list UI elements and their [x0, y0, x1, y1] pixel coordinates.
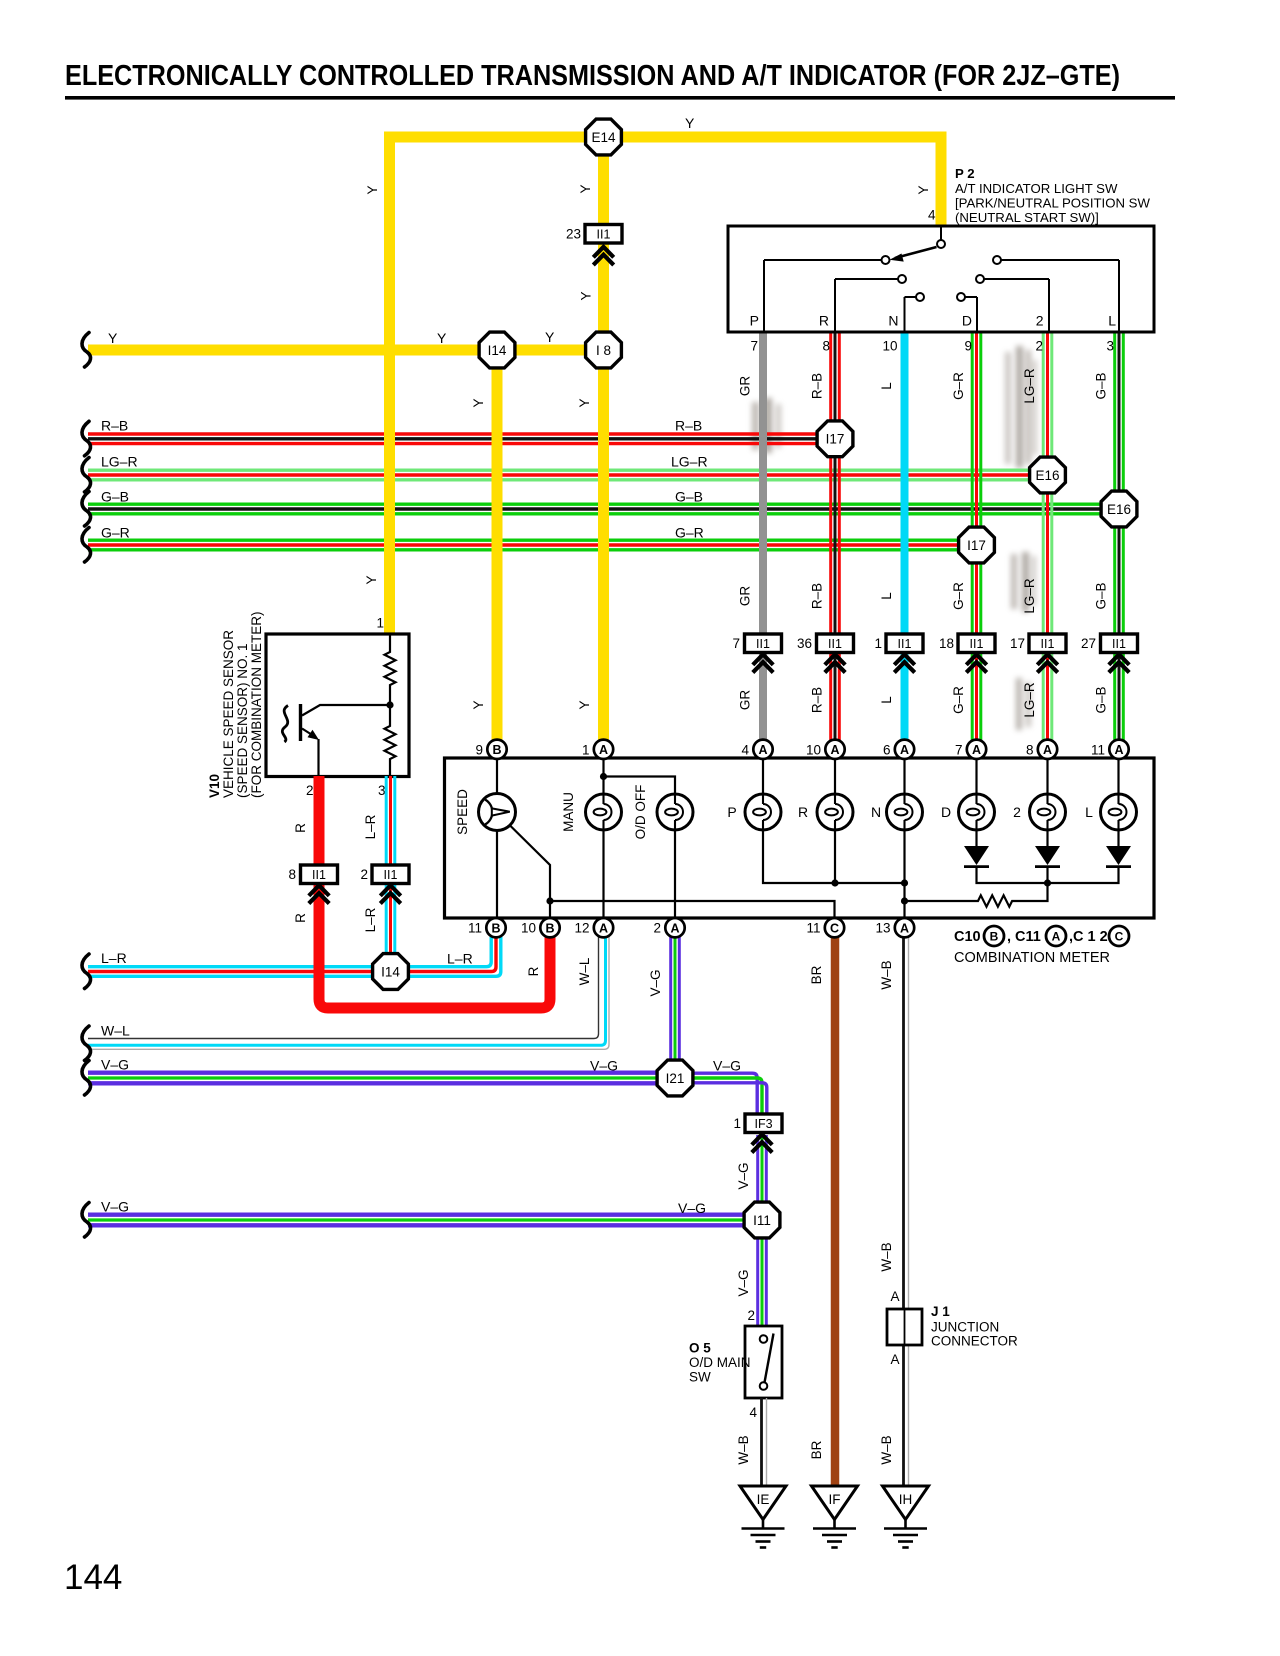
- wire break brace W-L: [82, 1026, 91, 1061]
- chevron below II1 pin 17: [1037, 654, 1057, 672]
- svg-text:B: B: [545, 921, 554, 935]
- junction connector I14 on Y: [479, 332, 515, 368]
- svg-text:IH: IH: [899, 1492, 913, 1507]
- connector II1 pin 2: [360, 865, 409, 884]
- connector IF3 pin 1: [733, 1114, 782, 1133]
- svg-text:Y: Y: [437, 330, 447, 346]
- svg-text:A: A: [670, 921, 679, 935]
- svg-text:R–B: R–B: [810, 373, 825, 399]
- connector II1 pin 18: [939, 634, 995, 653]
- svg-text:LG–R: LG–R: [1022, 578, 1037, 614]
- svg-text:R–B: R–B: [101, 418, 128, 434]
- lamp 2: [1030, 794, 1066, 830]
- svg-text:2: 2: [360, 867, 368, 882]
- svg-text:L–R: L–R: [101, 950, 127, 966]
- pin 11 B meter bottom: [486, 918, 505, 937]
- V10 pickup squiggle: [282, 706, 288, 743]
- chevron below II1 pin 2: [380, 885, 400, 903]
- svg-text:I17: I17: [826, 432, 845, 447]
- svg-text:36: 36: [797, 636, 812, 651]
- svg-text:Y: Y: [916, 185, 931, 194]
- chevron below II1 pin 1: [894, 654, 914, 672]
- svg-text:O/D OFF: O/D OFF: [633, 785, 648, 840]
- O5 switch contacts and lever: [760, 1334, 774, 1390]
- ground IE: [740, 1486, 786, 1548]
- svg-text:L–R: L–R: [363, 907, 378, 932]
- svg-text:A: A: [1043, 743, 1052, 757]
- svg-text:R–B: R–B: [810, 583, 825, 609]
- wire G-B vertical (P2 pin3 to meter 11A): [1115, 332, 1124, 742]
- svg-text:G–B: G–B: [101, 489, 129, 505]
- svg-text:R–B: R–B: [810, 687, 825, 713]
- svg-text:2: 2: [1036, 313, 1044, 329]
- wire L-R horizontal bundle from left: [88, 967, 391, 977]
- resistor in meter: [905, 883, 1048, 907]
- svg-text:A: A: [758, 743, 767, 757]
- svg-text:BR: BR: [809, 965, 824, 984]
- svg-text:G–B: G–B: [1094, 372, 1109, 399]
- svg-text:Y: Y: [471, 398, 486, 407]
- svg-text:LG–R: LG–R: [671, 454, 708, 470]
- svg-text:V–G: V–G: [101, 1199, 129, 1215]
- lamp L: [1101, 794, 1137, 830]
- ground IH: [883, 1486, 929, 1548]
- svg-text:II1: II1: [756, 637, 770, 651]
- svg-text:8: 8: [1026, 742, 1034, 757]
- svg-text:G–B: G–B: [1094, 582, 1109, 609]
- junction connector I21 on V-G: [657, 1060, 693, 1096]
- svg-text:GR: GR: [738, 690, 753, 711]
- svg-text:C: C: [830, 921, 839, 935]
- svg-text:P: P: [750, 313, 759, 329]
- pin 9 B meter top: [487, 740, 506, 759]
- meter internal: speed bottom to 11B: [496, 830, 498, 918]
- svg-text:1: 1: [582, 742, 590, 757]
- svg-text:J 1: J 1: [931, 1304, 950, 1319]
- svg-text:G–R: G–R: [101, 525, 130, 541]
- chevron below II1 pin 8: [309, 885, 329, 903]
- svg-text:O 5: O 5: [689, 1341, 711, 1356]
- svg-text:Y: Y: [577, 398, 592, 407]
- wire LG-R horizontal bundle: [88, 470, 1048, 480]
- svg-text:V–G: V–G: [678, 1200, 706, 1216]
- svg-text:V–G: V–G: [590, 1058, 618, 1074]
- wire V-G IF3 to I11: [758, 1135, 767, 1220]
- meter internal: long horizontal to 11C: [550, 901, 835, 918]
- svg-text:W–B: W–B: [879, 1242, 894, 1271]
- junction connector E16 on LG-R: [1030, 457, 1066, 493]
- svg-text:A: A: [900, 921, 909, 935]
- svg-text:SW: SW: [689, 1370, 711, 1385]
- P2 switch arm with arrow: [890, 240, 946, 262]
- P2 contact L (low): [993, 256, 1119, 332]
- svg-text:2: 2: [653, 921, 661, 936]
- sensor V10 box outline: [266, 634, 409, 777]
- svg-text:R: R: [526, 966, 541, 976]
- wire V-G horizontal from left to I21: [88, 1073, 675, 1084]
- pin 7 A meter top: [967, 740, 986, 759]
- svg-text:11: 11: [1091, 742, 1105, 757]
- svg-text:Y: Y: [578, 184, 593, 193]
- ground IF: [812, 1486, 858, 1548]
- wire LG-R vertical (P2 pin2 to meter 8A): [1043, 332, 1052, 742]
- wire V-G I11 to O5 switch: [758, 1220, 767, 1326]
- svg-text:9: 9: [475, 742, 483, 757]
- pin 4 A meter top: [753, 740, 772, 759]
- wire Y vertical E14 to meter pin 1A: [598, 137, 609, 742]
- wire break brace L-R: [82, 954, 91, 989]
- wire GR vertical (P2 pin7 to meter 4A): [759, 332, 767, 742]
- svg-text:B: B: [491, 921, 500, 935]
- svg-text:L: L: [879, 592, 894, 600]
- svg-text:7: 7: [732, 636, 740, 651]
- junction connector I17 on R-B: [817, 421, 853, 457]
- svg-text:N: N: [888, 313, 898, 329]
- title rule: [65, 96, 1175, 100]
- connector II1 pin 17: [1010, 634, 1066, 653]
- svg-text:1: 1: [874, 636, 882, 651]
- svg-text:I17: I17: [967, 538, 986, 553]
- svg-text:L: L: [1085, 804, 1093, 820]
- pin 13 A meter bottom: [895, 918, 914, 937]
- wire L-R from I14 up to meter 11B: [391, 937, 501, 976]
- svg-text:II1: II1: [312, 868, 326, 882]
- svg-text:A: A: [890, 1352, 899, 1367]
- wire W-B left (O5 to ground IE): [762, 1398, 767, 1486]
- svg-text:B: B: [990, 930, 999, 944]
- wire G-R horizontal bundle: [88, 540, 977, 550]
- meter internal: junction dot 10B: [546, 897, 553, 904]
- svg-text:V–G: V–G: [648, 969, 663, 996]
- svg-text:V–G: V–G: [736, 1162, 751, 1189]
- meter internal: speed diagonal to junction: [508, 824, 550, 919]
- junction connector I14 on L-R: [373, 954, 409, 990]
- svg-text:IE: IE: [757, 1492, 770, 1507]
- junction connector E16 on G-B: [1101, 491, 1137, 527]
- svg-text:8: 8: [288, 867, 296, 882]
- chevron below II1 pin 27: [1109, 654, 1129, 672]
- connector II1 pin 27: [1081, 634, 1138, 653]
- V10 collector wire: [302, 705, 390, 716]
- wire V-G (meter 2A down to I21): [671, 937, 680, 1078]
- svg-text:G–B: G–B: [1094, 686, 1109, 713]
- svg-text:[PARK/NEUTRAL POSITION SW: [PARK/NEUTRAL POSITION SW: [955, 196, 1150, 211]
- wire break brace G-B: [82, 492, 91, 527]
- P2 contact N (neutral): [905, 293, 925, 332]
- transistor emitter with arrow: [302, 729, 319, 777]
- pin 12 A meter bottom: [594, 918, 613, 937]
- chevron below II1 pin 18: [966, 654, 986, 672]
- svg-text:A: A: [900, 743, 909, 757]
- chevron below IF3: [752, 1134, 772, 1152]
- svg-text:Y: Y: [364, 575, 379, 584]
- svg-text:L–R: L–R: [363, 814, 378, 839]
- svg-text:I14: I14: [488, 343, 507, 358]
- svg-text:A: A: [1114, 743, 1123, 757]
- lamp P: [745, 794, 781, 830]
- wire R-B horizontal bundle: [88, 434, 835, 444]
- svg-text:ELECTRONICALLY CONTROLLED TRAN: ELECTRONICALLY CONTROLLED TRANSMISSION A…: [65, 60, 1120, 92]
- meter internal: D 2 L feeds: [977, 759, 1119, 794]
- svg-text:10: 10: [521, 921, 536, 936]
- svg-text:II1: II1: [1041, 637, 1055, 651]
- pin 11 A meter top: [1109, 740, 1128, 759]
- svg-text:7: 7: [955, 742, 963, 757]
- switch P2 box outline: [728, 226, 1154, 332]
- svg-text:MANU: MANU: [561, 792, 576, 832]
- svg-text:A: A: [890, 1289, 899, 1304]
- svg-text:II1: II1: [384, 868, 398, 882]
- svg-text:Y: Y: [365, 185, 380, 194]
- switch O5 box outline: [745, 1326, 782, 1398]
- svg-text:II1: II1: [597, 228, 611, 242]
- svg-text:Y: Y: [108, 330, 118, 346]
- junction connector J1 box: [887, 1309, 922, 1345]
- svg-text:IF3: IF3: [754, 1117, 772, 1131]
- meter internal: diode rail junction dot: [1044, 879, 1051, 886]
- svg-text:V–G: V–G: [736, 1269, 751, 1296]
- svg-text:II1: II1: [970, 637, 984, 651]
- lamp D: [959, 794, 995, 830]
- svg-text:G–R: G–R: [675, 525, 704, 541]
- wire L-R bundle (V10 pin3 to I14): [386, 776, 395, 952]
- wire V-G horizontal 2 from left to I11: [88, 1215, 762, 1226]
- svg-text:R–B: R–B: [675, 418, 702, 434]
- svg-text:L: L: [879, 382, 894, 390]
- svg-text:Y: Y: [579, 291, 594, 300]
- svg-text:G–B: G–B: [675, 489, 703, 505]
- wire break brace LG-R: [82, 458, 91, 493]
- wire BR (meter 11C to ground IF): [831, 937, 840, 1486]
- wire W-L (meter 12A to left): [88, 937, 609, 1049]
- svg-text:12: 12: [574, 921, 589, 936]
- wire break brace G-R: [82, 528, 91, 563]
- svg-text:E16: E16: [1035, 468, 1059, 483]
- meter internal: D 2 L lamp-to-diode leads: [977, 830, 1119, 846]
- V10 resistor lower: [385, 705, 396, 776]
- svg-text:R: R: [819, 313, 829, 329]
- svg-text:2: 2: [747, 1308, 755, 1323]
- svg-text:1: 1: [733, 1116, 741, 1131]
- wire Y vertical I14 to meter pin 9B: [492, 350, 503, 742]
- pin 1 A meter top: [594, 740, 613, 759]
- P2 contact P (park): [764, 256, 890, 332]
- svg-text:LG–R: LG–R: [101, 454, 138, 470]
- svg-text:L: L: [1108, 313, 1116, 329]
- svg-text:VEHICLE SPEED SENSOR: VEHICLE SPEED SENSOR: [221, 630, 236, 798]
- lamp N: [887, 794, 923, 830]
- svg-text:V–G: V–G: [101, 1057, 129, 1073]
- svg-text:10: 10: [806, 742, 821, 757]
- svg-text:GR: GR: [738, 376, 753, 397]
- svg-text:D: D: [941, 804, 951, 820]
- svg-text:L–R: L–R: [447, 951, 473, 967]
- wire G-B horizontal bundle: [88, 504, 1119, 514]
- svg-text:10: 10: [882, 339, 897, 354]
- wire break brace R-B: [82, 421, 91, 456]
- P2 contact D (drive): [957, 293, 977, 332]
- combination meter box outline: [445, 758, 1155, 918]
- svg-text:R: R: [798, 804, 808, 820]
- svg-text:1: 1: [376, 616, 384, 631]
- svg-text:7: 7: [750, 339, 758, 354]
- svg-text:II1: II1: [828, 637, 842, 651]
- wire break brace V-G lower: [82, 1203, 91, 1238]
- svg-text:Y: Y: [577, 700, 592, 709]
- wire G-R vertical (P2 pin9 to meter 7A): [972, 332, 981, 742]
- P2 contact 2 (second): [976, 275, 1049, 332]
- svg-text:A: A: [599, 743, 608, 757]
- svg-text:23: 23: [566, 227, 581, 242]
- wire break brace V-G upper: [82, 1061, 91, 1096]
- svg-text:D: D: [962, 313, 972, 329]
- lamp MANU: [586, 794, 622, 830]
- connector II1 pin 36: [797, 634, 854, 653]
- svg-text:A/T INDICATOR LIGHT SW: A/T INDICATOR LIGHT SW: [955, 181, 1118, 196]
- diode 2: [1035, 846, 1060, 867]
- svg-text:BR: BR: [809, 1440, 824, 1459]
- diode L: [1106, 846, 1131, 867]
- lamp O/D OFF: [657, 794, 693, 830]
- svg-text:L: L: [879, 696, 894, 704]
- svg-text:W–B: W–B: [736, 1435, 751, 1464]
- svg-text:V–G: V–G: [713, 1058, 741, 1074]
- connector II1 pin 23 on Y: [566, 225, 622, 244]
- connector II1 pin 7: [732, 634, 781, 653]
- svg-text:2: 2: [1013, 804, 1021, 820]
- svg-text:P: P: [727, 804, 736, 820]
- wire R-B vertical (P2 pin8 to meter 10A): [831, 332, 840, 742]
- svg-text:Y: Y: [685, 115, 695, 131]
- svg-text:Y: Y: [545, 329, 555, 345]
- svg-text:, C11: , C11: [1007, 929, 1041, 945]
- wire break brace Y: [82, 333, 91, 368]
- wire W-B right (meter 13A to ground IH): [904, 937, 909, 1486]
- svg-text:I14: I14: [381, 964, 400, 979]
- svg-text:R: R: [293, 913, 308, 923]
- svg-text:N: N: [871, 804, 881, 820]
- svg-text:9: 9: [964, 339, 972, 354]
- svg-text:II1: II1: [1112, 637, 1126, 651]
- junction connector I8 on Y: [586, 332, 622, 368]
- svg-text:CONNECTOR: CONNECTOR: [931, 1334, 1018, 1349]
- svg-text:18: 18: [939, 636, 954, 651]
- svg-text:IF: IF: [829, 1492, 841, 1507]
- meter internal: branch dot at 1A: [600, 773, 607, 780]
- meter internal: P R N feeds: [763, 759, 905, 794]
- pin 6 A meter top: [895, 740, 914, 759]
- V10 node junction dot: [386, 701, 393, 708]
- svg-text:G–R: G–R: [951, 582, 966, 610]
- svg-text:4: 4: [749, 1405, 757, 1420]
- svg-text:W–B: W–B: [879, 960, 894, 989]
- svg-text:I 8: I 8: [596, 343, 611, 358]
- svg-text:SPEED: SPEED: [455, 789, 470, 835]
- svg-text:O/D MAIN: O/D MAIN: [689, 1355, 751, 1370]
- junction connector E14 on Y: [586, 119, 622, 155]
- scan smudge artifacts: [752, 346, 1037, 730]
- svg-text:C: C: [1115, 930, 1124, 944]
- wire R thick (V10 pin2 to meter 10B): [319, 776, 550, 1008]
- pin 10 A meter top: [825, 740, 844, 759]
- meter internal: P R N bottoms common: [763, 830, 905, 918]
- chevron below II1 pin 7: [753, 654, 773, 672]
- meter internal: 1A feed and branch: [604, 759, 676, 918]
- svg-text:11: 11: [806, 921, 820, 936]
- V10 resistor upper: [385, 634, 396, 705]
- svg-text:E16: E16: [1107, 502, 1131, 517]
- svg-text:B: B: [492, 743, 501, 757]
- svg-text:C10: C10: [954, 929, 981, 945]
- chevron below II1 pin 36: [825, 654, 845, 672]
- junction connector I11 on V-G: [744, 1202, 780, 1238]
- svg-text:W–L: W–L: [101, 1023, 130, 1039]
- chevron below II1 pin 23: [593, 247, 613, 265]
- wire Y main run: vertical x389, top horizontal, drop to P2 pin 4: [390, 137, 942, 634]
- svg-text:4: 4: [928, 208, 936, 223]
- svg-text:JUNCTION: JUNCTION: [931, 1320, 999, 1335]
- meter internal: junction dots R N: [831, 879, 838, 886]
- svg-text:COMBINATION METER: COMBINATION METER: [954, 950, 1110, 966]
- meter connector legend C10 C11 C12: [954, 926, 1129, 946]
- junction connector I17 on G-R: [959, 527, 995, 563]
- component name V10 VEHICLE SPEED SENSOR rotated: [207, 612, 264, 799]
- wire V-G from I21 to IF3: [675, 1073, 767, 1114]
- svg-text:G–R: G–R: [951, 372, 966, 400]
- svg-text:Y: Y: [471, 700, 486, 709]
- svg-text:3: 3: [378, 783, 386, 798]
- svg-text:I21: I21: [666, 1071, 685, 1086]
- svg-text:E14: E14: [591, 130, 616, 145]
- wire L vertical (P2 pin10 to meter 6A): [901, 332, 909, 742]
- svg-text:2: 2: [1035, 339, 1043, 354]
- svg-text:(NEUTRAL START SW)]: (NEUTRAL START SW)]: [955, 210, 1099, 225]
- meter internal: speed sensor feed 9B: [496, 759, 498, 794]
- svg-text:8: 8: [822, 339, 830, 354]
- svg-text:144: 144: [64, 1558, 122, 1597]
- wire Y horizontal to I14/I8: [88, 345, 604, 356]
- connector II1 pin 1: [874, 634, 923, 653]
- svg-text:A: A: [972, 743, 981, 757]
- P2 feed line from pin 4: [940, 226, 942, 240]
- connector II1 pin 8: [288, 865, 337, 884]
- svg-text:I11: I11: [753, 1213, 771, 1228]
- svg-text:,C 1 2: ,C 1 2: [1069, 929, 1108, 945]
- svg-text:GR: GR: [738, 586, 753, 607]
- svg-text:LG–R: LG–R: [1022, 368, 1037, 404]
- svg-text:V10: V10: [207, 774, 222, 798]
- pin 11 C meter bottom: [825, 918, 844, 937]
- svg-text:W–L: W–L: [577, 957, 592, 985]
- svg-text:27: 27: [1081, 636, 1096, 651]
- pin 8 A meter top: [1038, 740, 1057, 759]
- svg-text:6: 6: [883, 742, 891, 757]
- lamp R: [817, 794, 853, 830]
- svg-text:A: A: [1052, 930, 1061, 944]
- svg-text:4: 4: [741, 742, 749, 757]
- svg-text:11: 11: [468, 921, 482, 936]
- svg-text:A: A: [830, 743, 839, 757]
- svg-text:13: 13: [875, 921, 890, 936]
- svg-text:II1: II1: [898, 637, 912, 651]
- svg-text:P 2: P 2: [955, 166, 975, 181]
- transistor Q in V10: base bar: [299, 704, 302, 741]
- diode D: [964, 846, 989, 867]
- svg-text:LG–R: LG–R: [1022, 682, 1037, 718]
- svg-text:A: A: [599, 921, 608, 935]
- pin 10 B meter bottom: [540, 918, 559, 937]
- svg-text:W–B: W–B: [879, 1435, 894, 1464]
